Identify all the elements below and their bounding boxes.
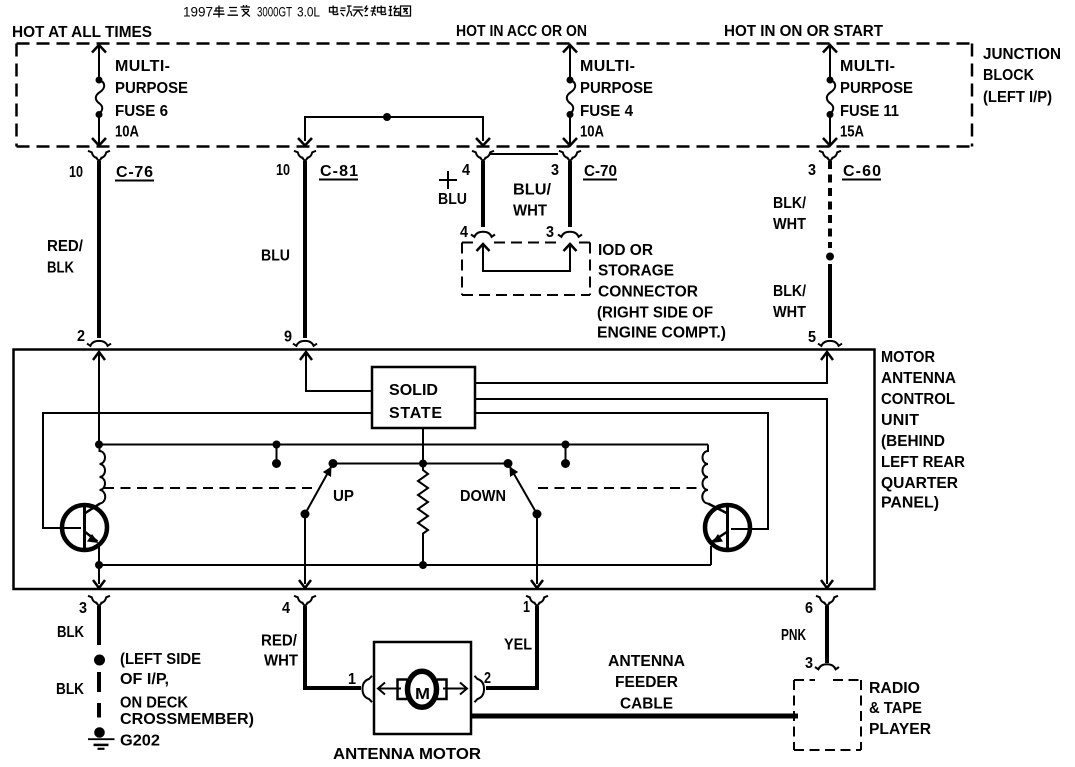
svg-text:WHT: WHT (264, 653, 298, 670)
svg-text:CABLE: CABLE (620, 696, 673, 713)
svg-text:FUSE 11: FUSE 11 (840, 103, 899, 120)
svg-text:& TAPE: & TAPE (869, 700, 922, 717)
svg-text:3: 3 (546, 224, 554, 241)
svg-text:10A: 10A (580, 124, 604, 141)
svg-text:BLK/: BLK/ (773, 195, 806, 212)
svg-text:C-70: C-70 (584, 163, 617, 180)
svg-text:ANTENNA: ANTENNA (608, 653, 685, 670)
wire solid state to Q2 base (475, 413, 768, 529)
fuse FUSE 11 15A symbol (823, 45, 837, 146)
svg-text:UNIT: UNIT (881, 412, 919, 429)
wire solid state to switch common (422, 428, 424, 463)
op-amp U1 SOLID STATE box (372, 367, 475, 428)
junction dot bus left (95, 441, 103, 449)
svg-text:MULTI-: MULTI- (115, 58, 170, 75)
svg-text:PURPOSE: PURPOSE (580, 80, 653, 97)
connector motor pin 2 (475, 676, 485, 702)
svg-text:(LEFT I/P): (LEFT I/P) (983, 89, 1052, 106)
IOD connector dashed housing (462, 243, 590, 296)
stub contact right (565, 445, 567, 464)
svg-text:BLU: BLU (438, 191, 467, 208)
wire BLK dashed segment (97, 672, 101, 718)
svg-text:CONTROL: CONTROL (881, 391, 955, 408)
wire BLU C-81 pin10 to control unit pin9 (303, 161, 307, 338)
ground location note (120, 651, 254, 728)
svg-text:OF I/P,: OF I/P, (120, 671, 169, 688)
radio and tape player dashed box (794, 680, 861, 750)
svg-text:10: 10 (69, 164, 83, 181)
svg-text:M: M (415, 686, 430, 703)
svg-text:4: 4 (462, 162, 470, 179)
motor arrow right (443, 683, 467, 695)
svg-text:15A: 15A (840, 124, 864, 141)
svg-text:PURPOSE: PURPOSE (840, 80, 913, 97)
wire DOWN to pin1 exit (536, 514, 538, 584)
svg-text:C-60: C-60 (843, 163, 881, 180)
svg-text:1: 1 (348, 671, 356, 688)
title CJK glyph dian1 (330, 6, 338, 15)
connector pin 2 at control unit (87, 341, 111, 346)
switch DOWN contact dot (504, 459, 513, 468)
switch UP arm (305, 464, 333, 515)
switch UP contact dot (329, 459, 338, 468)
wire BLK/WHT solid segment to pin5 (828, 264, 832, 338)
stub contact left (276, 445, 278, 464)
svg-text:STATE: STATE (389, 405, 442, 422)
plus mark at BLU (439, 171, 457, 189)
svg-text:BLK/: BLK/ (773, 283, 806, 300)
svg-text:6: 6 (805, 600, 813, 617)
svg-text:YEL: YEL (504, 637, 532, 654)
svg-text:3000GT: 3000GT (257, 4, 292, 20)
wire PNK to radio (825, 606, 829, 663)
svg-text:SOLID: SOLID (389, 382, 438, 399)
svg-text:FUSE 4: FUSE 4 (580, 103, 633, 120)
svg-text:PNK: PNK (781, 627, 806, 644)
svg-text:(BEHIND: (BEHIND (881, 433, 945, 450)
arrow pin6 exit (821, 580, 833, 588)
svg-text:3: 3 (808, 162, 816, 179)
fuse FUSE 4 10A symbol (563, 45, 577, 146)
title CJK glyph ling (241, 5, 251, 17)
connector pin 4 below control unit (294, 596, 316, 606)
svg-text:4: 4 (282, 600, 290, 617)
svg-text:WHT: WHT (513, 203, 547, 220)
switch common line (333, 463, 508, 465)
arrow into junction block at BLU column (476, 138, 490, 146)
junction dot BLK wire (94, 655, 105, 666)
wire RED/WHT to antenna motor (305, 606, 361, 688)
svg-text:JUNCTION: JUNCTION (983, 46, 1061, 63)
connector IOD pin 3 (558, 232, 582, 237)
junction dot resistor bottom (419, 561, 427, 569)
svg-text:G202: G202 (120, 733, 160, 750)
svg-text:10: 10 (276, 162, 290, 179)
wire Q1 emitter to pin3 exit (98, 565, 100, 584)
motor antenna control unit box (14, 350, 875, 590)
svg-text:WHT: WHT (773, 216, 806, 233)
junction dot on bridge wire (383, 113, 391, 121)
connector pin 6 below control unit (816, 596, 838, 606)
svg-text:HOT IN ON OR START: HOT IN ON OR START (724, 23, 883, 40)
svg-text:9: 9 (284, 329, 292, 346)
svg-text:FEEDER: FEEDER (615, 674, 678, 691)
svg-text:LEFT REAR: LEFT REAR (881, 454, 965, 471)
wire solid state to Q1 base (43, 413, 372, 528)
svg-text:BLOCK: BLOCK (983, 67, 1034, 84)
title CJK glyph dian2 (378, 6, 386, 15)
svg-text:ON DECK: ON DECK (120, 695, 188, 712)
svg-text:5: 5 (808, 329, 816, 346)
motor M1 symbol (398, 671, 447, 707)
wire YEL to antenna motor (486, 606, 537, 688)
connector pin 9 at control unit (293, 341, 317, 346)
svg-text:BLU/: BLU/ (513, 182, 552, 199)
svg-text:RED/: RED/ (261, 633, 298, 650)
antenna motor box (374, 642, 471, 734)
wire pin5 to solid state (475, 353, 827, 383)
dashed mechanical link right (538, 487, 703, 489)
transistor Q2 (705, 504, 750, 566)
junction block dashed outline (17, 44, 973, 147)
control unit label (881, 349, 965, 512)
svg-text:PURPOSE: PURPOSE (115, 80, 188, 97)
svg-text:3: 3 (79, 600, 87, 617)
junction dot switch common center (419, 460, 427, 468)
svg-text:3: 3 (551, 162, 559, 179)
wire BLK solid segment (97, 606, 101, 645)
svg-text:MULTI-: MULTI- (580, 58, 635, 75)
svg-text:(RIGHT SIDE OF: (RIGHT SIDE OF (597, 305, 713, 322)
svg-text:STORAGE: STORAGE (598, 263, 674, 280)
transistor Q1 (62, 504, 107, 566)
title CJK glyph tu (401, 6, 411, 16)
svg-text:RADIO: RADIO (869, 680, 920, 697)
inductor L2 right coil (702, 445, 708, 504)
svg-text:C-76: C-76 (116, 164, 153, 181)
connector pin 3 at radio (815, 664, 839, 669)
title CJK glyph xian (365, 6, 377, 17)
motor arrow left (378, 683, 401, 695)
connector housing link pins 4-3 (489, 153, 558, 155)
title: 1997 Mitsubishi 3000GT 3.0L power antenna circuit diagram (183, 4, 411, 20)
title CJK glyph tian (353, 7, 364, 17)
svg-text:DOWN: DOWN (460, 488, 506, 505)
svg-text:1997: 1997 (183, 4, 213, 20)
arrow into junction block at C-81 column (298, 138, 312, 146)
radio label (869, 680, 931, 738)
wire BLU junction block to IOD pin4 (481, 161, 485, 227)
svg-text:C-81: C-81 (320, 163, 358, 180)
emitter bus bottom (99, 564, 711, 566)
fuse FUSE 11 label (840, 58, 913, 141)
svg-text:PANEL): PANEL) (881, 495, 939, 512)
svg-text:HOT AT ALL TIMES: HOT AT ALL TIMES (12, 24, 152, 41)
wire bridge C-81 to BLU column (305, 117, 483, 141)
connector C-81 symbol pin 10 (294, 151, 316, 161)
svg-text:3: 3 (805, 655, 813, 672)
inductor L1 left coil (100, 445, 106, 504)
wire solid state to pin6 (475, 399, 827, 584)
junction dot on BLK/WHT wire (826, 253, 834, 261)
svg-text:2: 2 (77, 328, 85, 345)
svg-text:BLK: BLK (57, 624, 84, 641)
antenna feeder cable label (608, 653, 685, 713)
arrow pin2 entry (93, 352, 105, 360)
dashed mechanical link left (104, 487, 318, 489)
fuse FUSE 4 label (580, 58, 653, 141)
connector pin 1 below control unit (526, 596, 548, 606)
title CJK glyph san (228, 8, 239, 16)
IOD jumper wire with arrows (477, 244, 577, 271)
antenna feeder cable wire (471, 714, 798, 719)
connector BLU column pin 4 (472, 151, 494, 161)
svg-text:1: 1 (523, 599, 530, 616)
connector C-76 symbol pin 10 (88, 151, 110, 161)
fuse FUSE 6 10A symbol (92, 45, 106, 146)
arrow pin9 entry (300, 352, 312, 360)
connector C-60 symbol pin 3 (819, 151, 841, 161)
svg-text:FUSE 6: FUSE 6 (115, 103, 168, 120)
fuse FUSE 6 label (115, 58, 188, 141)
svg-text:WHT: WHT (773, 304, 806, 321)
svg-text:ENGINE COMPT.): ENGINE COMPT.) (597, 325, 726, 342)
switch UP lower contact dot (301, 510, 310, 519)
svg-text:IOD OR: IOD OR (598, 242, 653, 259)
svg-text:HOT IN ACC OR ON: HOT IN ACC OR ON (456, 23, 587, 40)
arrow pin1 exit (531, 580, 543, 588)
svg-text:3.0L: 3.0L (297, 4, 320, 20)
svg-text:4: 4 (460, 224, 468, 241)
arrow pin5 entry (821, 352, 833, 360)
svg-text:(LEFT SIDE: (LEFT SIDE (120, 651, 201, 668)
wire UP to pin4 exit (304, 514, 306, 584)
svg-text:2: 2 (484, 670, 491, 687)
svg-text:MULTI-: MULTI- (840, 58, 895, 75)
svg-text:PLAYER: PLAYER (869, 721, 931, 738)
title CJK glyph nian (213, 5, 411, 18)
svg-text:UP: UP (333, 488, 354, 505)
svg-text:BLU: BLU (261, 248, 290, 265)
junction dot emitter bus left (95, 561, 103, 569)
resistor R1 (418, 464, 428, 566)
wire bus node B1 (99, 444, 708, 446)
arrow pin3 exit (93, 580, 105, 588)
connector motor pin 1 (363, 676, 373, 702)
svg-text:ANTENNA MOTOR: ANTENNA MOTOR (333, 746, 481, 763)
arrow pin4 exit (299, 580, 311, 588)
wire BLK/WHT C-60 pin3 dashed segment (828, 161, 832, 248)
ground G202 (88, 727, 115, 749)
svg-text:CONNECTOR: CONNECTOR (598, 284, 698, 301)
svg-text:10A: 10A (115, 124, 139, 141)
connector IOD pin 4 (471, 232, 495, 237)
IOD label text (597, 242, 726, 342)
svg-text:MOTOR: MOTOR (881, 349, 935, 366)
svg-text:ANTENNA: ANTENNA (881, 370, 956, 387)
title CJK glyph lu (389, 6, 400, 17)
svg-text:CROSSMEMBER): CROSSMEMBER) (120, 711, 254, 728)
connector pin 3 below control unit (88, 596, 110, 606)
wire RED/BLK C-76 pin10 to control unit pin2 (97, 161, 101, 338)
svg-text:RED/: RED/ (47, 238, 84, 255)
wire pin9 to solid state (306, 353, 372, 391)
junction block label (983, 46, 1061, 106)
switch DOWN arm (508, 464, 537, 515)
title CJK glyph dong (340, 6, 352, 17)
connector pin 5 at control unit (818, 341, 842, 346)
wire BLU/WHT C-70 pin3 to IOD pin3 (568, 161, 572, 227)
connector C-70 symbol pin 3 (559, 151, 581, 161)
svg-text:QUARTER: QUARTER (881, 475, 958, 492)
svg-text:BLK: BLK (56, 681, 84, 698)
wire pin2 to bus (98, 353, 100, 444)
switch DOWN lower contact dot (533, 510, 542, 519)
svg-text:BLK: BLK (47, 260, 74, 277)
